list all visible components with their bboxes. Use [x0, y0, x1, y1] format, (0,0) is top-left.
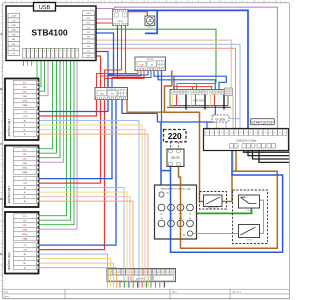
- svg-text:МОТОРЫ: МОТОРЫ: [136, 279, 146, 281]
- wire violet into relay box: [113, 7, 115, 9]
- wires blue from 12V connector to PSU24 top: [108, 71, 148, 88]
- wire green header on relay board: [177, 83, 216, 85]
- title block: [3, 289, 290, 298]
- svg-text:Помпа: Помпа: [147, 27, 154, 29]
- svg-text:USB: USB: [39, 5, 51, 11]
- wire red bus to VFD: [96, 48, 236, 131]
- wire brown through contactor L3 T3: [179, 167, 181, 240]
- svg-text:VIN: VIN: [12, 34, 16, 36]
- svg-text:БП 12В: БП 12В: [147, 59, 155, 61]
- wire blue relay box to PSU24: [112, 26, 118, 88]
- svg-text:13: 13: [189, 214, 191, 216]
- svg-text:B-: B-: [24, 134, 26, 136]
- wire red header on relay board: [174, 86, 213, 88]
- wires stepper phase group3 to terminal block: [39, 254, 108, 268]
- VFD YL620-A-2.2kw: [204, 129, 289, 151]
- svg-text:A-: A-: [24, 191, 26, 194]
- wire violet A2 stop loop: [259, 200, 264, 233]
- svg-text:PU+: PU+: [23, 150, 28, 152]
- svg-text:B-: B-: [24, 201, 26, 203]
- label box START/STOP: [251, 119, 275, 125]
- svg-text:C: C: [0, 142, 2, 146]
- wire green bus to relay board: [96, 29, 216, 83]
- wire violet STB pin to relay box left: [96, 18, 113, 20]
- wire dashed blue 220 to VD250: [170, 142, 172, 149]
- wire blue 12V connector down to contactor feed line: [161, 71, 163, 123]
- wire violet top bus to START/STOP: [96, 8, 114, 10]
- relay module K1: [113, 10, 129, 26]
- svg-text:A-: A-: [24, 124, 26, 127]
- svg-text:ENA-: ENA-: [22, 171, 27, 174]
- wire red relay box to PSU24: [105, 26, 122, 88]
- limit switch SQ1 (dashed enclosure): [200, 192, 227, 210]
- wires stepper phase group1 to terminal block: [39, 121, 140, 269]
- svg-text:GND: GND: [11, 30, 16, 32]
- svg-text:GND: GND: [86, 56, 91, 58]
- wire red relay box second: [97, 26, 126, 74]
- wire brown VFD output loop lower part: [181, 171, 278, 248]
- svg-text:МАГНИТНЫЙ ПУСКАТЕЛЬ 1-18А: МАГНИТНЫЙ ПУСКАТЕЛЬ 1-18А: [161, 187, 191, 190]
- svg-text:PU+: PU+: [23, 83, 28, 85]
- wire violet from contactor A2: [193, 233, 239, 235]
- svg-text:14: 14: [189, 218, 191, 220]
- svg-text:Лист: Лист: [172, 291, 177, 293]
- wire tan bus to fuse and down: [96, 40, 231, 88]
- svg-text:220: 220: [168, 131, 182, 141]
- svg-text:D: D: [0, 197, 2, 201]
- svg-text:ENA-: ENA-: [22, 104, 27, 107]
- svg-text:+5V: +5V: [23, 179, 27, 181]
- svg-text:Изм.: Изм.: [4, 291, 9, 293]
- wire blue riser to VFD FWD: [158, 71, 215, 123]
- svg-text:B: B: [0, 87, 2, 91]
- relay board mounting rail: [167, 106, 231, 108]
- svg-text:+5V: +5V: [23, 112, 27, 114]
- svg-text:DIR-: DIR-: [23, 163, 28, 165]
- ruler letters: [0, 32, 2, 256]
- svg-text:ВД 250: ВД 250: [171, 156, 180, 160]
- svg-text:A: A: [0, 32, 2, 36]
- wire blue branch into relay board group1: [173, 76, 175, 90]
- svg-text:START|STOP: START|STOP: [251, 120, 274, 124]
- svg-text:ENA+: ENA+: [22, 167, 28, 170]
- wire blue fan loop: [145, 10, 157, 33]
- magnetic contactor KM1: [155, 185, 197, 239]
- svg-text:ВЫКЛ СЕТЬ: ВЫКЛ СЕТЬ: [208, 208, 219, 210]
- wire blue bus tap into relay box: [117, 9, 119, 12]
- power connector 24V: [95, 88, 128, 100]
- svg-text:YL620-A-2.2kw: YL620-A-2.2kw: [236, 138, 257, 142]
- wire black motor cable from VFD: [244, 148, 290, 152]
- svg-text:+24V: +24V: [22, 250, 28, 252]
- svg-text:+3.3V: +3.3V: [11, 16, 17, 18]
- wire blue STB right pin to PSU24: [96, 33, 114, 88]
- svg-text:DIR-: DIR-: [23, 230, 28, 232]
- svg-text:ENA+: ENA+: [22, 233, 28, 236]
- svg-text:Листов 1: Листов 1: [232, 291, 242, 293]
- stepper driver DM542 group 1: [5, 79, 39, 141]
- svg-text:PU-: PU-: [23, 154, 27, 156]
- svg-text:STB4100: STB4100: [31, 28, 68, 38]
- wires relay board outputs: [173, 95, 225, 110]
- svg-text:0-10v: 0-10v: [215, 117, 225, 122]
- svg-text:+24V: +24V: [22, 116, 28, 118]
- wires blue 0V from PSU to driver groups: [39, 100, 109, 112]
- svg-text:DIR+: DIR+: [22, 159, 28, 161]
- svg-text:B-: B-: [24, 268, 26, 270]
- svg-text:GND: GND: [11, 25, 16, 27]
- power connector 12V: [135, 57, 166, 71]
- source 220V: [164, 130, 187, 142]
- wires red +24V from PSU to driver groups: [39, 100, 97, 117]
- wire blue PSU24 to contactor riser: [122, 100, 157, 114]
- STB4100 bottom pin header: [23, 48, 79, 58]
- wire light blue 0-10v to VFD: [230, 118, 241, 120]
- stepper driver DM542 group 3: [5, 212, 39, 274]
- relay board SSR: [170, 90, 228, 106]
- wire red STB pin into relay box: [96, 22, 113, 24]
- svg-text:Дата: Дата: [4, 296, 10, 298]
- svg-text:ДРАЙВЕР ШД Y: ДРАЙВЕР ШД Y: [8, 185, 11, 203]
- svg-text:A-: A-: [24, 258, 26, 261]
- fuse F1: [225, 88, 233, 96]
- svg-text:DIR-: DIR-: [23, 96, 28, 98]
- svg-text:PU-: PU-: [23, 87, 27, 89]
- svg-text:DIR+: DIR+: [22, 92, 28, 94]
- wire blue horizontal to VFD FWD: [157, 121, 215, 123]
- wire light blue bus to VFD: [96, 44, 240, 131]
- coolant pump M1: [145, 16, 155, 29]
- svg-text:СТОП: СТОП: [247, 240, 253, 242]
- wire blue STB right pin to PSU24 top: [96, 52, 108, 88]
- wire dashed orange 220 to VD250: [178, 142, 180, 149]
- switch box (dashed enclosure): [233, 190, 268, 244]
- svg-text:+5V: +5V: [23, 245, 27, 247]
- terminal block motors: [107, 269, 176, 282]
- svg-text:ДРАЙВЕР ШД Z: ДРАЙВЕР ШД Z: [8, 252, 11, 270]
- wire tan 0-10v to VFD: [216, 122, 218, 132]
- svg-text:ENA-: ENA-: [22, 238, 27, 241]
- controller board STB4100: [6, 6, 96, 61]
- circuit breaker VD250: [167, 149, 184, 167]
- svg-text:+5V: +5V: [12, 20, 16, 22]
- svg-text:+24V: +24V: [22, 183, 28, 185]
- wire blue through contactor L2 T2: [170, 167, 172, 240]
- svg-text:PU-: PU-: [23, 221, 27, 223]
- svg-text:E: E: [0, 252, 2, 256]
- wire green thick contactor 13NO to spindle switch: [190, 208, 252, 213]
- svg-text:ENA+: ENA+: [22, 100, 28, 103]
- wire blue 12V connector to relay board: [154, 71, 226, 90]
- label box 0-10v: [212, 115, 229, 122]
- wire blue VFD output loop lower part: [171, 148, 283, 252]
- svg-text:DIR+: DIR+: [22, 225, 28, 227]
- svg-text:ДРАЙВЕР ШД X: ДРАЙВЕР ШД X: [8, 118, 11, 136]
- svg-text:24В: 24В: [100, 94, 104, 96]
- svg-text:1L1: 1L1: [160, 214, 163, 216]
- wire red STB right pin to PSU24 top: [96, 56, 101, 88]
- svg-text:2T1: 2T1: [160, 218, 163, 220]
- svg-text:12В: 12В: [140, 64, 144, 66]
- wires through terminal block: [108, 269, 149, 288]
- stepper driver DM542 group 2: [5, 146, 39, 208]
- wire brown main riser through limit switch: [165, 71, 233, 202]
- wires motor stubs below terminal block: [120, 282, 164, 288]
- wire blue top bus to VFD: [118, 10, 248, 131]
- wire red relay box to fan: [126, 12, 148, 16]
- STB4100 left pin header: [8, 13, 20, 55]
- wire brown PSU24 to main brown riser: [127, 100, 165, 113]
- svg-text:РЕЛЕ: РЕЛЕ: [118, 21, 124, 23]
- STB4100 right pin header: [83, 11, 95, 58]
- wire blue contactor A1 riser: [156, 113, 158, 122]
- short stub wires under STB4100 left pins: [23, 58, 25, 66]
- wires stepper phase group2 to terminal block: [39, 188, 125, 269]
- switch SA2: [239, 225, 260, 242]
- switch SA1: [239, 195, 260, 212]
- wires green/violet from STB4100 bottom pins to stepper drivers: [37, 58, 39, 82]
- svg-text:PU+: PU+: [23, 216, 28, 218]
- wires red from 12V connector to PSU24 top: [97, 71, 139, 88]
- USB connector: [34, 3, 56, 12]
